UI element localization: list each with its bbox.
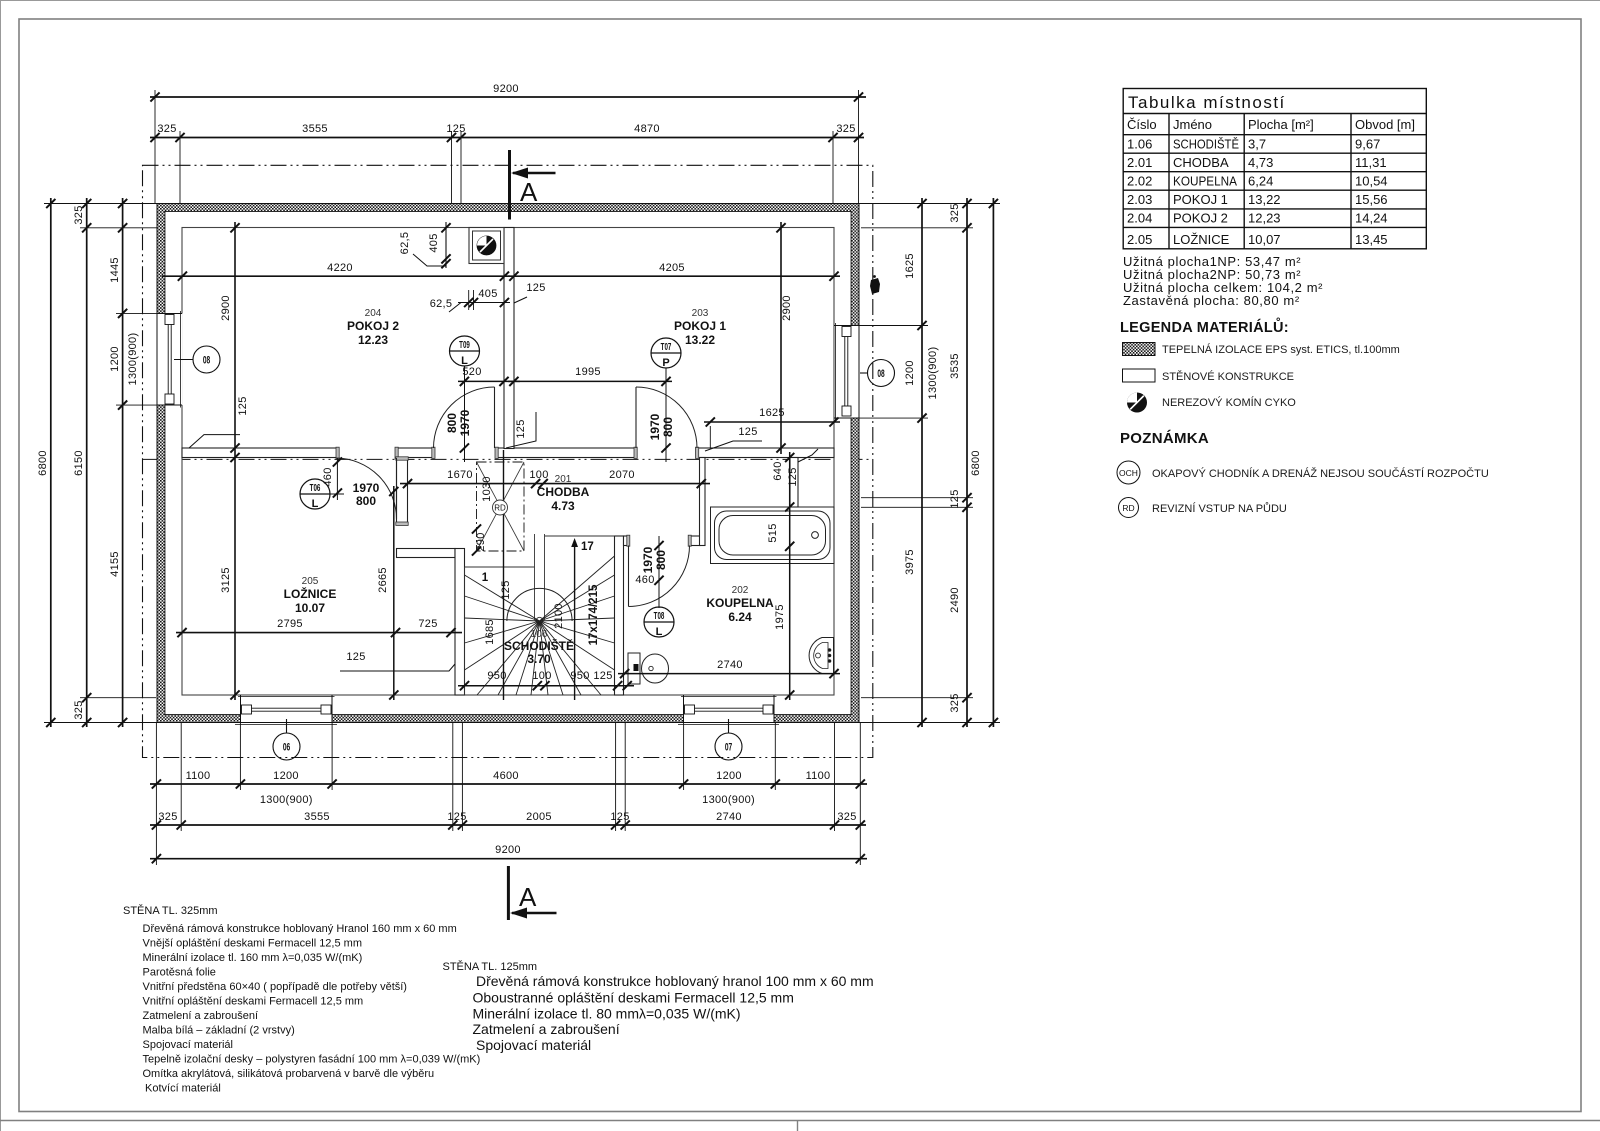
- window S-1: [235, 695, 337, 725]
- 520 / 1995 dims: [458, 380, 520, 382]
- svg-text:1975: 1975: [774, 604, 786, 630]
- svg-text:325: 325: [837, 811, 856, 823]
- svg-text:125: 125: [738, 426, 757, 438]
- svg-text:1300(900): 1300(900): [702, 794, 755, 806]
- svg-text:LOŽNICE: LOŽNICE: [1173, 232, 1230, 247]
- svg-text:OCH: OCH: [1119, 468, 1138, 478]
- svg-text:17x174/215: 17x174/215: [588, 584, 600, 645]
- svg-text:725: 725: [418, 618, 437, 630]
- svg-text:1670: 1670: [447, 469, 473, 481]
- window W-left: [156, 311, 183, 408]
- svg-text:3535: 3535: [949, 353, 961, 379]
- section mark A top: [508, 150, 511, 220]
- svg-text:125: 125: [593, 670, 612, 682]
- svg-text:P: P: [662, 357, 669, 369]
- svg-text:2.03: 2.03: [1127, 192, 1152, 207]
- svg-text:1625: 1625: [759, 407, 785, 419]
- svg-text:100: 100: [532, 670, 551, 682]
- svg-text:9,67: 9,67: [1355, 137, 1380, 152]
- svg-text:15,56: 15,56: [1355, 192, 1388, 207]
- svg-text:T06: T06: [310, 481, 321, 493]
- attic hatch RD: [477, 462, 525, 551]
- door leaf dims rotated: [353, 409, 675, 573]
- left columns: [51, 198, 123, 727]
- bathtub: [711, 507, 835, 564]
- svg-text:2.04: 2.04: [1127, 211, 1152, 226]
- svg-text:6,24: 6,24: [1248, 174, 1273, 189]
- 2665 vertical: [393, 486, 395, 700]
- svg-text:1: 1: [482, 572, 489, 584]
- svg-text:Malba bílá – základní (2 vrstv: Malba bílá – základní (2 vrstvy): [143, 1025, 295, 1037]
- chimney small dims: [445, 222, 447, 268]
- svg-text:07: 07: [725, 741, 732, 753]
- svg-text:A: A: [519, 882, 537, 912]
- svg-text:Tepelně izolační desky – polys: Tepelně izolační desky – polystyren fasá…: [143, 1054, 481, 1066]
- horizontal axis dash-dot line: [143, 458, 873, 460]
- svg-text:1030: 1030: [481, 476, 493, 502]
- title block top line (cropped sheet below): [0, 1120, 1600, 1122]
- exterior wall: insulation hatch ring: [157, 204, 859, 723]
- chodba/bath wall: [700, 458, 706, 546]
- T06: [396, 458, 398, 519]
- doors: [336, 387, 698, 607]
- vertical 2900 pokoj1: [780, 222, 782, 454]
- top row 9200: [150, 96, 866, 98]
- svg-text:T08: T08: [654, 609, 665, 621]
- svg-text:6800: 6800: [970, 450, 982, 476]
- svg-text:L: L: [312, 498, 319, 510]
- svg-text:6.24: 6.24: [728, 610, 752, 624]
- svg-text:LEGENDA MATERIÁLŮ:: LEGENDA MATERIÁLŮ:: [1120, 317, 1289, 336]
- svg-text:62,5: 62,5: [430, 298, 453, 310]
- svg-text:4220: 4220: [327, 262, 353, 274]
- svg-text:RD: RD: [494, 504, 506, 513]
- svg-text:Zatmelení a zabroušení: Zatmelení a zabroušení: [143, 1010, 259, 1022]
- svg-text:3125: 3125: [220, 567, 232, 593]
- opening end caps: [336, 447, 699, 546]
- svg-text:125: 125: [949, 489, 961, 508]
- svg-text:17: 17: [581, 541, 594, 553]
- svg-text:125: 125: [446, 123, 465, 135]
- svg-text:Oboustranné opláštění deskami: Oboustranné opláštění deskami Fermacell …: [473, 990, 794, 1006]
- walk line arc: [507, 588, 572, 621]
- top row chain: [150, 137, 864, 139]
- window W-right: [834, 323, 860, 421]
- svg-text:1200: 1200: [904, 360, 916, 386]
- svg-text:202: 202: [732, 585, 749, 596]
- svg-text:125: 125: [515, 419, 527, 438]
- wall left of stair: [397, 549, 456, 558]
- loznice stub wall: [397, 458, 408, 525]
- svg-text:1300(900): 1300(900): [927, 347, 939, 400]
- svg-text:Kotvící materiál: Kotvící materiál: [145, 1083, 221, 1095]
- svg-text:L: L: [656, 626, 663, 638]
- right columns: [922, 198, 993, 727]
- svg-text:3.70: 3.70: [527, 652, 551, 666]
- svg-text:1625: 1625: [904, 253, 916, 279]
- svg-text:1300(900): 1300(900): [127, 333, 139, 386]
- svg-text:14,24: 14,24: [1355, 211, 1388, 226]
- svg-text:A: A: [520, 177, 538, 207]
- svg-text:1445: 1445: [109, 257, 121, 283]
- svg-text:1.06: 1.06: [1127, 137, 1152, 152]
- svg-text:RD: RD: [1122, 503, 1134, 513]
- sink: [809, 638, 834, 674]
- svg-text:460: 460: [322, 467, 334, 486]
- svg-text:203: 203: [692, 308, 709, 319]
- svg-text:125: 125: [526, 282, 545, 294]
- svg-text:800: 800: [356, 494, 376, 508]
- svg-text:204: 204: [365, 308, 382, 319]
- svg-text:325: 325: [949, 693, 961, 712]
- svg-text:9200: 9200: [493, 83, 519, 95]
- svg-text:1970: 1970: [641, 546, 655, 573]
- stairs: [465, 534, 615, 695]
- svg-text:325: 325: [836, 123, 855, 135]
- svg-text:L: L: [461, 355, 468, 367]
- svg-text:2.05: 2.05: [1127, 232, 1152, 247]
- bath niche stub: [790, 458, 798, 508]
- stair bottom chain 950/100/950/125: [458, 685, 634, 687]
- svg-text:1200: 1200: [716, 770, 742, 782]
- newel slot: [534, 534, 536, 618]
- svg-text:POKOJ 2: POKOJ 2: [347, 319, 399, 333]
- svg-text:Omítka akrylátová, silikátová: Omítka akrylátová, silikátová probarvená…: [143, 1068, 435, 1080]
- svg-text:405: 405: [478, 288, 497, 300]
- svg-text:325: 325: [73, 205, 85, 224]
- svg-text:515: 515: [767, 523, 779, 542]
- svg-text:06: 06: [283, 741, 290, 753]
- svg-text:NEREZOVÝ KOMÍN CYKO: NEREZOVÝ KOMÍN CYKO: [1162, 396, 1296, 409]
- svg-text:1995: 1995: [575, 366, 601, 378]
- svg-text:08: 08: [203, 354, 210, 366]
- svg-text:Minerální izolace tl. 80 mmλ=0: Minerální izolace tl. 80 mmλ=0,035 W/(mK…: [473, 1006, 741, 1022]
- svg-text:2.01: 2.01: [1127, 155, 1152, 170]
- roof overhang dash-dot outline: [143, 165, 873, 757]
- bath right vertical dim 640/515/1975: [789, 452, 791, 700]
- svg-text:2490: 2490: [949, 587, 961, 613]
- svg-text:Dřevěná rámová konstrukce hobl: Dřevěná rámová konstrukce hoblovaný hran…: [476, 973, 874, 989]
- T08: [628, 546, 630, 607]
- svg-text:4.73: 4.73: [551, 499, 575, 513]
- T09: [494, 387, 496, 448]
- svg-text:Plocha [m²]: Plocha [m²]: [1248, 117, 1314, 132]
- svg-text:1970: 1970: [353, 481, 380, 495]
- 1625 dim pokoj1: [704, 421, 840, 423]
- svg-text:TEPELNÁ IZOLACE EPS syst. ETIC: TEPELNÁ IZOLACE EPS syst. ETICS, tl.100m…: [1162, 343, 1400, 356]
- inner wall face: [182, 228, 834, 696]
- top rooms horizontal dim 4220/4205: [162, 275, 840, 277]
- svg-text:1100: 1100: [186, 770, 211, 782]
- svg-text:CHODBA: CHODBA: [537, 485, 590, 499]
- svg-text:13,45: 13,45: [1355, 232, 1388, 247]
- svg-text:6150: 6150: [73, 450, 85, 476]
- toilet: [628, 653, 669, 684]
- svg-text:POZNÁMKA: POZNÁMKA: [1120, 430, 1209, 447]
- svg-text:1970: 1970: [458, 409, 472, 436]
- svg-text:125: 125: [447, 811, 466, 823]
- svg-text:10,07: 10,07: [1248, 232, 1281, 247]
- wall body between hatch and inner face: [165, 212, 851, 715]
- svg-text:Vnitřní předstěna 60×40 ( popř: Vnitřní předstěna 60×40 ( popřípadě dle …: [143, 981, 407, 993]
- svg-text:Tabulka místností: Tabulka místností: [1128, 93, 1286, 112]
- svg-text:STĚNA TL. 125mm: STĚNA TL. 125mm: [443, 960, 538, 973]
- svg-text:11,31: 11,31: [1355, 155, 1387, 170]
- svg-text:950: 950: [487, 670, 506, 682]
- svg-text:100: 100: [529, 469, 548, 481]
- svg-text:2005: 2005: [526, 811, 552, 823]
- svg-text:2795: 2795: [277, 618, 303, 630]
- svg-text:KOUPELNA: KOUPELNA: [1173, 174, 1237, 189]
- svg-text:Minerální izolace tl. 160 mm λ: Minerální izolace tl. 160 mm λ=0,035 W/(…: [143, 952, 363, 964]
- svg-text:405: 405: [428, 233, 440, 252]
- svg-text:1300(900): 1300(900): [260, 794, 313, 806]
- svg-text:460: 460: [635, 574, 654, 586]
- middle chain 1670/100/2070: [400, 483, 710, 485]
- svg-text:Zatmelení a zabroušení: Zatmelení a zabroušení: [473, 1021, 620, 1037]
- svg-text:2740: 2740: [716, 811, 742, 823]
- svg-text:62,5: 62,5: [399, 232, 411, 255]
- svg-text:SCHODIŠTĚ: SCHODIŠTĚ: [504, 638, 574, 653]
- svg-text:SCHODIŠTĚ: SCHODIŠTĚ: [1173, 137, 1239, 152]
- svg-text:520: 520: [462, 366, 481, 378]
- interior walls: [182, 228, 834, 696]
- svg-text:OKAPOVÝ CHODNÍK A DRENÁŽ NEJSO: OKAPOVÝ CHODNÍK A DRENÁŽ NEJSOU SOUČÁSTÍ…: [1152, 467, 1489, 480]
- svg-text:325: 325: [949, 203, 961, 222]
- stair right wall: [615, 536, 624, 695]
- svg-text:4205: 4205: [659, 262, 685, 274]
- svg-text:T09: T09: [459, 338, 470, 350]
- svg-text:Jméno: Jméno: [1173, 117, 1212, 132]
- window S-2: [678, 695, 779, 725]
- svg-text:2740: 2740: [717, 659, 743, 671]
- svg-text:325: 325: [158, 811, 177, 823]
- svg-text:3555: 3555: [304, 811, 330, 823]
- chimney symbol: [477, 236, 496, 255]
- svg-text:325: 325: [73, 700, 85, 719]
- bottom rows: [150, 784, 867, 859]
- loznice dims 2795/725: [176, 632, 462, 634]
- top extension lines: [154, 90, 156, 204]
- stair left wall: [455, 549, 465, 696]
- svg-text:2665: 2665: [377, 567, 389, 593]
- svg-text:2070: 2070: [609, 469, 635, 481]
- svg-text:4870: 4870: [634, 123, 660, 135]
- svg-text:201: 201: [555, 474, 572, 485]
- svg-text:125: 125: [346, 651, 365, 663]
- svg-text:125: 125: [237, 396, 249, 415]
- svg-text:9200: 9200: [495, 844, 521, 856]
- svg-text:3,7: 3,7: [1248, 137, 1266, 152]
- svg-text:3975: 3975: [904, 549, 916, 575]
- svg-text:REVIZNÍ VSTUP NA PŮDU: REVIZNÍ VSTUP NA PŮDU: [1152, 502, 1287, 515]
- svg-text:125: 125: [500, 580, 512, 599]
- svg-text:Vnější opláštění deskami Ferma: Vnější opláštění deskami Fermacell 12,5 …: [143, 938, 362, 950]
- door circle connectors: [464, 366, 466, 392]
- svg-text:STĚNA TL. 325mm: STĚNA TL. 325mm: [123, 904, 218, 917]
- svg-text:10.07: 10.07: [295, 601, 325, 615]
- svg-text:1685: 1685: [484, 619, 496, 645]
- svg-text:1970: 1970: [648, 413, 662, 440]
- svg-text:2900: 2900: [781, 295, 793, 321]
- svg-text:Obvod [m]: Obvod [m]: [1355, 117, 1415, 132]
- svg-text:LOŽNICE: LOŽNICE: [284, 586, 337, 601]
- svg-text:3555: 3555: [302, 123, 328, 135]
- svg-text:2100: 2100: [553, 603, 565, 629]
- page edge lines: [0, 0, 1600, 2]
- bath top wall segments: [624, 536, 629, 546]
- svg-text:2900: 2900: [220, 295, 232, 321]
- marker blob on right roofline: [870, 278, 880, 294]
- svg-text:12.23: 12.23: [358, 333, 388, 347]
- svg-text:800: 800: [654, 550, 668, 570]
- svg-text:STĚNOVÉ KONSTRUKCE: STĚNOVÉ KONSTRUKCE: [1162, 370, 1294, 383]
- svg-text:325: 325: [157, 123, 176, 135]
- svg-text:13,22: 13,22: [1248, 192, 1281, 207]
- svg-text:290: 290: [475, 532, 487, 551]
- svg-text:2.02: 2.02: [1127, 174, 1152, 189]
- svg-text:800: 800: [445, 413, 459, 433]
- svg-text:640: 640: [772, 461, 784, 480]
- section mark A bottom: [507, 866, 510, 920]
- svg-text:4155: 4155: [109, 551, 121, 577]
- bath 2740 / 460 / 1975 right inner: [618, 673, 840, 675]
- T07: [635, 387, 637, 448]
- chimney niche: [469, 228, 504, 264]
- svg-text:1100: 1100: [806, 770, 831, 782]
- svg-text:1200: 1200: [273, 770, 299, 782]
- svg-text:1200: 1200: [109, 346, 121, 372]
- svg-text:POKOJ 1: POKOJ 1: [1173, 192, 1228, 207]
- svg-text:Zastavěná plocha: 80,80 m²: Zastavěná plocha: 80,80 m²: [1123, 293, 1300, 308]
- middle wall segments: [182, 448, 338, 458]
- svg-text:6800: 6800: [37, 450, 49, 476]
- svg-text:Spojovací materiál: Spojovací materiál: [476, 1037, 591, 1053]
- svg-text:125: 125: [610, 811, 629, 823]
- svg-text:Vnitřní opláštění deskami Ferm: Vnitřní opláštění deskami Fermacell 12,5…: [143, 996, 364, 1008]
- svg-text:125: 125: [787, 467, 799, 486]
- svg-text:4,73: 4,73: [1248, 155, 1273, 170]
- T06 460 dim: [336, 458, 338, 500]
- svg-text:Dřevěná rámová konstrukce hobl: Dřevěná rámová konstrukce hoblovaný Hran…: [143, 923, 457, 935]
- svg-text:T07: T07: [661, 340, 672, 352]
- svg-text:CHODBA: CHODBA: [1173, 155, 1229, 170]
- svg-text:KOUPELNA: KOUPELNA: [706, 596, 774, 610]
- svg-text:08: 08: [877, 367, 884, 379]
- svg-text:POKOJ 2: POKOJ 2: [1173, 211, 1228, 226]
- svg-text:Spojovací materiál: Spojovací materiál: [143, 1039, 234, 1051]
- svg-text:13.22: 13.22: [685, 333, 715, 347]
- svg-text:10,54: 10,54: [1355, 174, 1388, 189]
- svg-text:950: 950: [570, 670, 589, 682]
- svg-text:Parotěsná folie: Parotěsná folie: [143, 967, 216, 979]
- vertical 2900/3125 line at x=235: [234, 222, 236, 700]
- svg-text:4600: 4600: [493, 770, 519, 782]
- svg-text:POKOJ 1: POKOJ 1: [674, 319, 726, 333]
- walk lines: [503, 450, 505, 700]
- T09 axis line down through wall: [464, 366, 466, 462]
- svg-text:800: 800: [661, 417, 675, 437]
- chimney partition wall: [504, 228, 514, 449]
- svg-text:Číslo: Číslo: [1127, 117, 1157, 132]
- svg-text:12,23: 12,23: [1248, 211, 1281, 226]
- svg-text:205: 205: [302, 576, 319, 587]
